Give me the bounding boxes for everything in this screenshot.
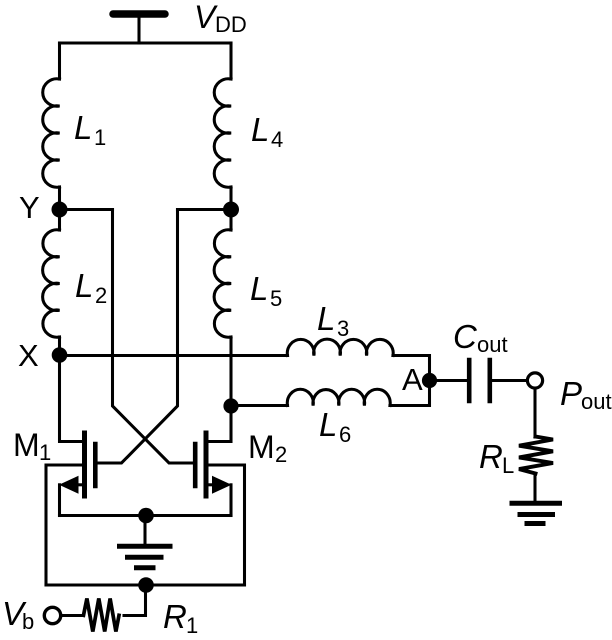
svg-text:R: R [479,438,503,475]
svg-text:L: L [317,300,335,337]
svg-text:L: L [75,267,93,304]
node Y (dot) [52,202,68,218]
ground (output) bar 1 [512,501,560,506]
svg-text:6: 6 [339,422,351,447]
wire Vb to R1 [62,614,84,617]
svg-text:1: 1 [39,440,51,465]
inductor L1 [43,79,60,188]
svg-text:2: 2 [95,283,107,308]
resistor R1 [84,599,120,632]
wire drain node to L6 [231,404,288,407]
wire left cross vertical and diagonal to M2 gate [113,210,193,464]
wire L2 to X [58,337,61,355]
inductor L6 [287,389,390,405]
svg-text:Y: Y [19,190,40,225]
M2 body lead [209,465,245,585]
node A (dot) [422,373,437,388]
inductor L5 [214,230,231,337]
wire Pout to RL [533,388,536,437]
wire left column top [58,43,61,79]
wire M2 source down [229,485,232,516]
capacitor Cout plate 1 [467,360,472,401]
wire Cout to Pout terminal [492,379,527,382]
node tail (dot) [138,508,154,524]
wire L1 to Y [58,187,61,210]
wire top rail [60,41,232,44]
wire node A to Cout [430,379,467,382]
svg-text:C: C [453,318,478,355]
svg-text:3: 3 [337,316,349,341]
terminal Pout (open circle) [527,373,542,388]
transistor M2 channel bar [204,433,209,496]
svg-text:L: L [502,453,514,478]
node bias rail (dot) [138,577,154,593]
svg-text:R: R [163,598,187,635]
wire Y to L2 [58,210,61,230]
transistor M1 channel bar [82,433,87,496]
ground (tail) bar 3 [137,565,154,570]
svg-text:L: L [74,109,92,146]
ground (output) bar 3 [527,521,543,526]
wire right node to L5 [229,210,232,230]
inductor L2 [43,230,60,337]
M1 body lead [46,465,82,585]
ground (tail) bar 2 [128,555,162,560]
svg-text:L: L [250,270,268,307]
svg-text:out: out [581,389,612,414]
inductor L3 [287,339,393,355]
resistor RL [519,437,553,474]
capacitor Cout plate 2 [487,360,492,401]
svg-text:b: b [22,609,34,634]
wire L6 to node A [390,381,430,406]
node Y right (dot) [223,202,239,218]
wire L3 to node A [393,356,430,381]
wire tail to ground [143,516,146,545]
M1 source arrow [59,476,79,494]
svg-text:1: 1 [94,125,106,150]
M1 source lead [74,483,82,486]
svg-text:5: 5 [270,286,282,311]
wire M1 source down [58,485,61,516]
M2 source arrow [212,476,232,494]
svg-text:1: 1 [186,613,198,638]
svg-text:L: L [251,111,269,148]
svg-text:X: X [18,338,39,373]
ground (output) bar 2 [520,512,553,517]
svg-text:A: A [402,362,423,397]
wire L4 to right node [229,187,232,210]
wire X horizontal to L3 [60,354,288,357]
node drain M2 (dot) [223,398,238,413]
ground (tail) bar 1 [120,544,171,549]
terminal Vb (open circle) [44,607,60,623]
svg-text:out: out [477,332,508,357]
svg-text:P: P [560,375,582,412]
inductor L4 [214,79,231,188]
M2 source lead [209,483,217,486]
wire M2 drain up to drain node [209,406,232,442]
svg-text:2: 2 [275,442,287,467]
wire right column top [229,43,232,79]
svg-text:M: M [248,429,275,465]
svg-text:L: L [319,406,337,443]
VDD supply bar [113,10,165,18]
wire X column to M1 drain [60,355,83,442]
wire bottom rail [46,583,245,586]
wire RL to ground [533,474,536,503]
wire right cross vertical and diagonal to M1 gate [98,210,178,464]
wire Y to cross line [60,208,113,211]
svg-text:4: 4 [271,127,283,152]
wire VDD stem [137,17,140,43]
wire R1 to rail [124,585,146,616]
wire tail rail [60,514,232,517]
svg-text:DD: DD [215,12,247,37]
wire L5 to drain node [229,337,232,406]
transistor M2 gate bar [193,444,198,486]
svg-text:M: M [13,427,40,463]
node X (dot) [52,347,68,363]
wire right node to cross line [178,208,232,211]
transistor M1 gate bar [93,444,98,486]
